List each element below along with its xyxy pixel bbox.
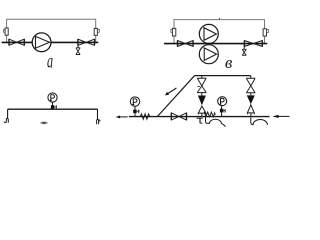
- assembly 1: branch valve stack at x=202: [197, 76, 206, 96]
- right nub BL: [99, 120, 100, 122]
- valve V3 (left gate valve B): [177, 40, 193, 46]
- smudge mark: [40, 121, 48, 124]
- pressure gauge G2 circle: [218, 97, 227, 106]
- stem to top line: [201, 76, 203, 79]
- zigzag Z2 (elevator nozzle): [204, 112, 215, 117]
- wire bypass line A: [7, 19, 96, 42]
- tap square G0: [51, 105, 54, 108]
- wire bypass line B: [174, 20, 265, 44]
- check valve C2: filled cone: [247, 95, 255, 104]
- assembly 2: branch valve stack at x=251: [246, 76, 255, 96]
- nub on K4: [267, 30, 269, 33]
- tap square G2: [220, 109, 224, 113]
- pressure gauge G1 circle: [130, 97, 139, 106]
- flow arrow out (left): [120, 116, 128, 118]
- svg-text:в: в: [225, 53, 233, 72]
- stem: [250, 93, 252, 96]
- tap cock tail G1: [137, 110, 139, 112]
- wire top line BR: [195, 75, 251, 77]
- svg-text:а: а: [47, 51, 53, 73]
- vibration insert K4 (right rectangle B): [263, 29, 266, 36]
- right union fork BL: [97, 119, 99, 124]
- gauge tap line G0: [52, 102, 54, 109]
- corner of top line down: [250, 76, 252, 79]
- letter P of G0: [50, 95, 52, 101]
- wire pipe BL: [8, 108, 98, 110]
- drain cock D2 under pipe B: [242, 44, 246, 56]
- junction tick on bypass B: [218, 18, 220, 20]
- loop pipe L2 (drop, arc over): [251, 117, 268, 125]
- tap cock tail G2: [224, 110, 225, 112]
- vibration insert K2 (right rectangle): [94, 28, 97, 35]
- check valve C1: open cone: [198, 106, 206, 113]
- stem to main pipe: [201, 113, 203, 117]
- valve V6 (vertical hourglass): [197, 78, 206, 92]
- zigzag Z1 (orifice): [140, 114, 150, 119]
- pump P2 (upper circle): [199, 24, 218, 43]
- gauge tap line G2: [221, 106, 223, 117]
- pump P1 (circle with triangle): [32, 33, 51, 52]
- letter P of G1: [132, 99, 134, 105]
- nub on K1: [4, 29, 6, 32]
- valve V2 (right gate valve A): [78, 39, 95, 45]
- check valve C1: filled cone: [198, 96, 206, 106]
- nub on K3: [171, 30, 173, 33]
- waist stub V6: [198, 85, 201, 87]
- left tail hook BL: [4, 121, 6, 122]
- stirrup below pipe (flange tee): [197, 117, 203, 119]
- wire left drop BL: [7, 109, 9, 118]
- vibration insert K3 (left rectangle B): [173, 28, 176, 36]
- wire right drop BL: [97, 109, 99, 119]
- wire main pipe A: [2, 41, 99, 43]
- wire main pipe B: [164, 43, 267, 45]
- tap cock tail G0: [54, 106, 56, 108]
- pressure gauge G0 circle: [48, 93, 57, 102]
- flow arrow on diagonal: [167, 88, 177, 94]
- valve V5 (gate valve BR main line): [171, 113, 186, 121]
- letter P of G2: [220, 98, 222, 104]
- nub on K2: [98, 29, 100, 32]
- valve V1 (left gate valve A): [9, 39, 25, 45]
- flow arrow in (right): [278, 115, 290, 117]
- stem to main pipe: [250, 113, 252, 117]
- valve V4 (right gate valve B): [244, 40, 262, 46]
- triangle of pump P3: [204, 48, 216, 61]
- vibration insert K1 (left rectangle): [5, 28, 8, 35]
- valve V7 (vertical hourglass): [246, 78, 255, 93]
- loop pipe L1 (drop, arc over, tail): [206, 117, 226, 127]
- stem: [201, 93, 203, 96]
- pump P3 (lower circle): [199, 45, 218, 64]
- wire main pipe BR: [129, 116, 270, 118]
- left union fork BL: [6, 118, 8, 122]
- drain cock D1 under pipe A: [76, 42, 80, 54]
- wire diagonal riser: [157, 76, 194, 117]
- check valve C2: open cone: [247, 105, 254, 113]
- gauge tap line G1: [134, 106, 136, 116]
- tap square G1: [133, 110, 137, 114]
- triangle of pump P2: [204, 28, 216, 41]
